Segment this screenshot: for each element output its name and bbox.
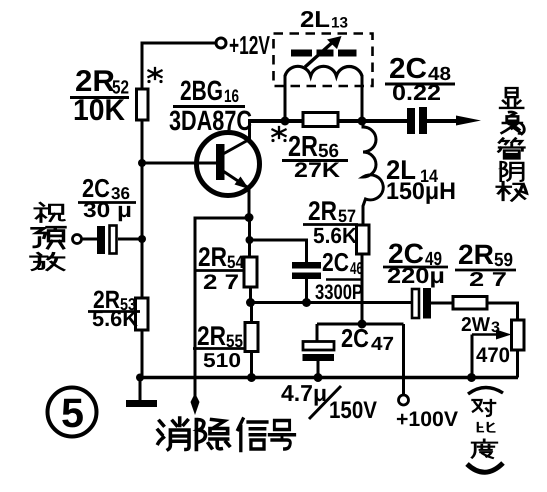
inductor L13 left leg — [284, 75, 287, 121]
svg-text:59: 59 — [494, 250, 513, 271]
svg-text:4.7μ: 4.7μ — [281, 380, 327, 406]
resistor R59 body — [453, 297, 487, 310]
svg-text:2W: 2W — [461, 314, 490, 336]
svg-text:470: 470 — [476, 344, 510, 367]
svg-text:3DA87C: 3DA87C — [169, 105, 252, 136]
inductor L13 core bar 3 — [338, 50, 357, 57]
svg-text:3: 3 — [491, 319, 500, 336]
asterisk mark near R52 — [147, 68, 162, 83]
label: contrast paren top arc — [468, 387, 503, 394]
wire: emitter to blanking corner — [195, 218, 249, 396]
capacitor C48 plate 1 — [407, 108, 415, 134]
label R55 value — [193, 321, 245, 372]
label: blanking signal char 消 — [158, 418, 189, 450]
capacitor C49 plate negative — [423, 288, 431, 319]
capacitor C36 plate positive — [110, 226, 117, 254]
node: C36 junction — [138, 235, 146, 243]
wire: C46 to node line — [305, 279, 308, 302]
wire: C49 to R59 — [431, 302, 453, 305]
inductor L13 winding — [285, 66, 362, 76]
capacitor C36 plate negative — [97, 226, 105, 254]
wire: emitter to R54 — [248, 218, 251, 257]
label: blanking signal char 隐 — [196, 420, 229, 450]
svg-text:46: 46 — [350, 259, 363, 278]
svg-text:2R: 2R — [198, 242, 227, 272]
svg-text:2R: 2R — [197, 321, 226, 351]
label: CRT cathode char 阴 — [501, 162, 523, 181]
label: video preamp char 视 — [35, 203, 64, 222]
wire: R57 down to +100V line — [361, 254, 364, 324]
resistor R52 body — [137, 89, 149, 120]
wire: mid rail (emitter bypass to contrast) — [251, 301, 413, 304]
svg-text:2L: 2L — [300, 6, 330, 32]
potentiometer W3 wiper arrow — [472, 330, 512, 340]
wire: R59 to pot top — [487, 303, 518, 320]
wire: input to C36 — [82, 238, 97, 241]
node: R55 to ground rail — [247, 373, 256, 382]
schematic number 5 — [48, 388, 97, 437]
node: base junction — [138, 159, 146, 167]
svg-text:+12V: +12V — [229, 30, 270, 60]
label transistor type 2BG16 — [169, 75, 252, 136]
wire: collector riser — [248, 121, 251, 140]
wire: +100V rail — [317, 323, 404, 326]
wire: C47 top lead — [316, 324, 319, 341]
inductor L13 tuning arrow — [305, 36, 342, 67]
label W3 — [461, 314, 500, 336]
inductor L13 shield dashed box — [274, 34, 373, 87]
label: CRT cathode char 极 — [497, 182, 527, 201]
wire: pot bottom lead — [516, 350, 519, 378]
label C47 value 4.7u 150V with slash — [281, 380, 377, 424]
label C48 value — [385, 53, 455, 105]
asterisk mark near R56 — [271, 127, 286, 142]
svg-text:2 7: 2 7 — [203, 271, 239, 294]
wire: left rail lower — [141, 330, 144, 377]
label +12V — [229, 30, 270, 60]
label: contrast char 度 — [472, 440, 497, 458]
inductor L13 core bar 1 — [291, 50, 312, 57]
label: contrast paren bottom arc — [467, 463, 503, 472]
node: R57 to 100V rail — [358, 320, 367, 329]
wire: C36 to rail — [118, 238, 142, 241]
label: video preamp char 放 — [31, 253, 64, 270]
label C36 value — [78, 173, 136, 222]
label: CRT cathode char 象 — [502, 112, 525, 134]
label R53 value — [88, 286, 140, 331]
node: C47 ground — [314, 373, 323, 382]
svg-text:510: 510 — [203, 350, 241, 372]
svg-text:47: 47 — [371, 334, 394, 355]
node: tank right — [358, 117, 367, 126]
label: video preamp char 预 — [32, 227, 65, 248]
label C47 — [341, 323, 394, 355]
capacitor C46 plate bottom — [292, 273, 321, 280]
label C46 value — [315, 247, 363, 304]
resistor R54 body — [244, 257, 257, 287]
capacitor C49 plate positive — [412, 289, 419, 318]
wire: R55 leads — [250, 303, 253, 378]
node: wiper ground — [467, 373, 476, 382]
capacitor C46 plate top — [292, 262, 321, 269]
svg-text:2BG: 2BG — [180, 75, 223, 106]
inductor L14 winding — [363, 121, 383, 227]
svg-text:27K: 27K — [294, 159, 340, 182]
svg-text:220μ: 220μ — [387, 263, 445, 288]
node: tank left — [281, 117, 290, 126]
wire: left rail middle — [141, 120, 144, 298]
label W3 value 470 — [476, 344, 510, 367]
label R54 value — [194, 242, 245, 294]
wire: +12V top feed — [142, 42, 215, 45]
svg-text:10K: 10K — [73, 94, 125, 127]
svg-text:54: 54 — [227, 252, 244, 272]
label: CRT cathode char 显 — [500, 88, 523, 108]
wire: C47 bottom lead — [317, 361, 320, 378]
label: CRT cathode char 管 — [499, 139, 525, 159]
arrow to CRT cathode — [456, 116, 481, 126]
svg-text:2 7: 2 7 — [469, 269, 507, 291]
svg-text:13: 13 — [331, 15, 348, 32]
svg-text:0.22: 0.22 — [392, 80, 441, 105]
svg-text:150V: 150V — [329, 397, 377, 424]
wire: branch to C46 — [250, 240, 307, 262]
svg-text:2R: 2R — [308, 196, 337, 226]
resistor R55 body — [245, 323, 258, 352]
transistor Q1 base bar — [216, 144, 225, 180]
terminal: video input — [73, 235, 82, 244]
ground symbol bar — [126, 400, 157, 407]
wire: wiper to ground rail — [471, 335, 474, 378]
ground symbol stem — [139, 378, 142, 401]
transistor Q1 emitter arrowhead — [235, 177, 250, 190]
label: contrast char 比 — [478, 423, 495, 432]
capacitor C47 plate top — [303, 342, 334, 351]
wire: ground rail — [140, 376, 518, 379]
svg-text:5: 5 — [61, 390, 84, 436]
inductor L13 core bar 2 — [317, 50, 334, 57]
node: C46 bottom — [302, 298, 311, 307]
svg-text:+100V: +100V — [396, 408, 458, 431]
transistor Q1 circle — [197, 133, 260, 196]
wire: emitter riser — [248, 186, 251, 218]
potentiometer W3 body — [512, 320, 525, 350]
label R57 value — [303, 196, 358, 248]
svg-text:3300P: 3300P — [315, 281, 363, 304]
wire: +100V riser and terminal lead — [402, 324, 405, 395]
arrow: blanking signal out — [191, 393, 200, 415]
wire: R54 to mid rail — [249, 287, 252, 302]
node: R54 bottom — [246, 298, 255, 307]
label: contrast char 对 — [473, 400, 496, 416]
svg-text:30 μ: 30 μ — [83, 199, 132, 222]
terminal +12V — [216, 38, 226, 48]
wire: main output line right — [338, 119, 407, 123]
label L14 — [386, 155, 456, 205]
label R56 value — [282, 131, 348, 182]
wire: main output line left — [248, 119, 303, 123]
wire: output to CRT — [427, 119, 462, 123]
resistor R57 body — [357, 225, 370, 254]
label L13 — [300, 6, 348, 32]
svg-text:2R: 2R — [458, 239, 494, 270]
svg-text:150μH: 150μH — [386, 178, 456, 205]
capacitor C48 plate 2 — [419, 107, 427, 134]
label C49 value — [383, 238, 448, 288]
resistor R56 body — [303, 113, 338, 127]
label +100V — [396, 408, 458, 431]
transistor Q1 collector stroke — [223, 139, 250, 154]
label R59 value — [455, 239, 516, 291]
svg-text:2C: 2C — [341, 323, 369, 353]
transistor Q1 emitter stroke — [223, 171, 247, 187]
wire: base — [142, 162, 217, 165]
capacitor C47 plate bottom — [303, 354, 335, 361]
svg-text:5.6K: 5.6K — [313, 223, 357, 248]
label: blanking signal char 号 — [269, 421, 294, 450]
node: emitter — [245, 213, 254, 222]
wire: left rail upper — [141, 42, 144, 90]
resistor R53 body — [136, 298, 149, 330]
node: ground rail left — [136, 374, 144, 382]
svg-text:2C: 2C — [322, 247, 349, 277]
inductor L13 right leg — [361, 75, 364, 121]
svg-text:5.6K: 5.6K — [92, 306, 138, 331]
terminal +100V — [399, 395, 409, 405]
label R52 value — [70, 65, 129, 127]
label: blanking signal char 信 — [238, 419, 267, 451]
svg-text:16: 16 — [224, 86, 239, 106]
node: C46 branch — [246, 236, 254, 244]
